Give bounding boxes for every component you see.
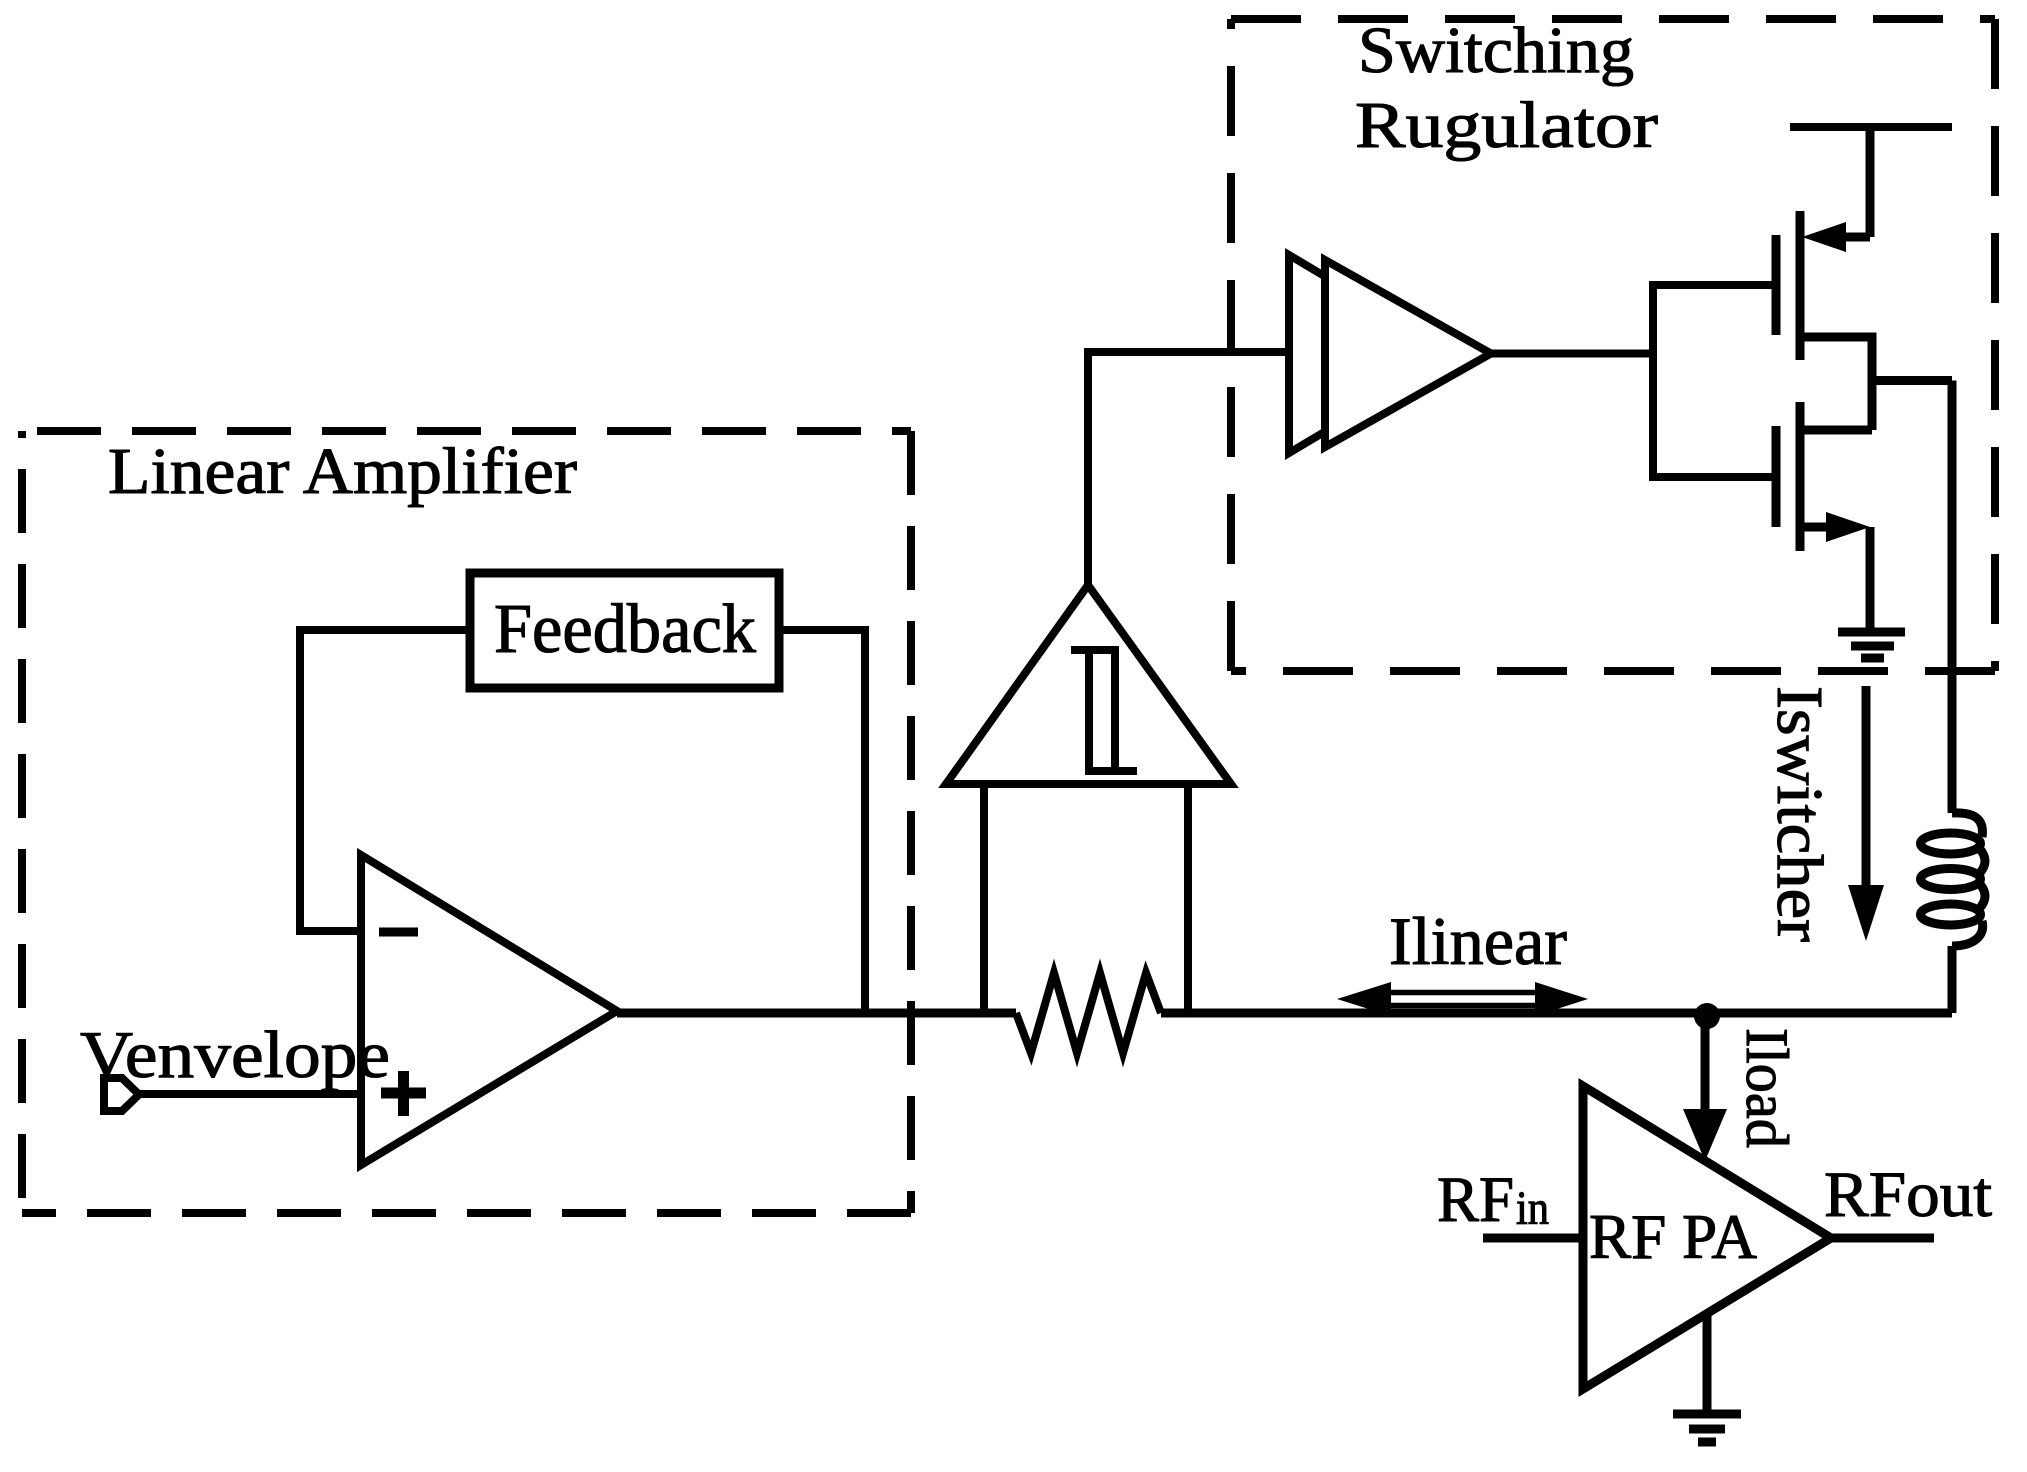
svg-text:RF PA: RF PA <box>1589 1201 1757 1272</box>
wire: main output line y=1013 <box>617 1009 1952 1018</box>
transistor M2 (NMOS) <box>1772 426 1781 527</box>
wire: RFin <box>1483 1234 1583 1243</box>
resistor Rsense <box>1016 973 1161 1053</box>
terminal: Venvelope port <box>104 1078 139 1111</box>
comparator legs <box>984 784 1188 1013</box>
gate ladder <box>1653 285 1772 477</box>
svg-text:Feedback: Feedback <box>494 591 756 668</box>
arrow Ilinear (double-headed) <box>1391 993 1535 1006</box>
op-amp minus sign <box>379 928 418 937</box>
ground G1 <box>1838 632 1905 658</box>
wire: switch node tap <box>1872 376 1952 385</box>
wire: supply to PMOS source <box>1866 127 1875 237</box>
supply rail top <box>1790 123 1952 131</box>
feedback block F1 <box>470 573 779 688</box>
wire: op-amp feedback left (y=630) <box>300 630 470 931</box>
comparator triangle (hysteretic) <box>946 585 1231 784</box>
svg-text:Ilinear: Ilinear <box>1389 903 1567 979</box>
wire: right rail down to inductor <box>1948 381 1957 814</box>
svg-text:Iswitcher: Iswitcher <box>1763 686 1836 942</box>
svg-text:Venvelope: Venvelope <box>80 1018 390 1092</box>
wire: op-amp feedback right (x=865) <box>779 630 865 1013</box>
inductor L1 <box>1921 813 1986 1013</box>
amplifier U3 (RF PA) <box>1583 1086 1831 1389</box>
ground G2 <box>1673 1414 1741 1442</box>
op-amp U1 <box>361 855 617 1165</box>
svg-text:Iload: Iload <box>1734 1028 1800 1148</box>
wire: buffer output (y=353.5) <box>1491 350 1653 358</box>
wire: RFout <box>1831 1234 1934 1243</box>
node A (junction dot) <box>1694 1003 1720 1029</box>
transistor M1 (PMOS) <box>1772 235 1781 335</box>
svg-text:RFout: RFout <box>1824 1159 1992 1231</box>
wire: comparator output up and right (y=352) <box>1088 352 1289 585</box>
buffer U2 back triangle <box>1289 255 1455 453</box>
svg-text:RF: RF <box>1437 1164 1514 1236</box>
svg-text:Switching: Switching <box>1358 14 1634 87</box>
dashed box: Linear Amplifier <box>22 431 911 1213</box>
op-amp plus sign <box>381 1071 426 1116</box>
wire: RF PA ground lead <box>1703 1314 1712 1413</box>
arrow Iswitcher <box>1862 686 1871 885</box>
svg-text:in: in <box>1516 1182 1549 1235</box>
svg-text:Linear Amplifier: Linear Amplifier <box>108 435 577 508</box>
svg-text:Rugulator: Rugulator <box>1355 89 1658 162</box>
hysteresis symbol <box>1071 650 1137 775</box>
dashed box: Switching Regulator <box>1231 19 1995 671</box>
buffer U2 front triangle <box>1325 260 1491 447</box>
wire: Venvelope input (y=1094) <box>139 1090 361 1098</box>
arrow Iload <box>1701 1016 1710 1109</box>
